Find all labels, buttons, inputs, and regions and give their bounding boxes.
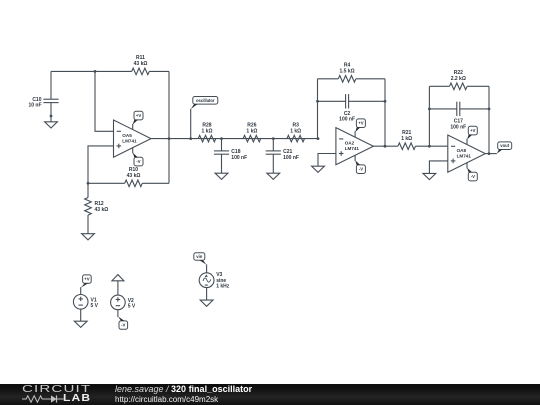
svg-text:1 kΩ: 1 kΩ xyxy=(401,136,412,142)
svg-text:oscillator: oscillator xyxy=(196,98,215,103)
svg-text:-V: -V xyxy=(359,167,363,172)
svg-text:-V: -V xyxy=(121,323,125,328)
svg-text:+V: +V xyxy=(84,277,89,282)
svg-text:100 nF: 100 nF xyxy=(283,155,299,161)
svg-text:2.2 kΩ: 2.2 kΩ xyxy=(451,76,466,82)
svg-text:1.5 kΩ: 1.5 kΩ xyxy=(340,68,355,74)
svg-text:+V: +V xyxy=(136,113,141,118)
svg-text:1 kHz: 1 kHz xyxy=(216,284,230,290)
svg-text:43 kΩ: 43 kΩ xyxy=(127,173,141,179)
svg-text:43 kΩ: 43 kΩ xyxy=(134,61,148,67)
svg-text:+V: +V xyxy=(358,121,363,126)
svg-text:1 kΩ: 1 kΩ xyxy=(202,128,213,134)
svg-text:vin: vin xyxy=(196,254,202,259)
svg-text:100 nF: 100 nF xyxy=(339,117,355,123)
svg-text:1 kΩ: 1 kΩ xyxy=(246,128,257,134)
svg-text:5 V: 5 V xyxy=(91,303,99,309)
svg-text:LM741: LM741 xyxy=(122,139,137,144)
svg-text:LM741: LM741 xyxy=(457,154,472,159)
svg-text:OA8: OA8 xyxy=(457,148,467,153)
svg-text:+V: +V xyxy=(470,128,475,133)
svg-text:LM741: LM741 xyxy=(345,146,360,151)
svg-text:OA2: OA2 xyxy=(345,140,355,145)
svg-text:-V: -V xyxy=(136,159,140,164)
svg-text:100 nF: 100 nF xyxy=(450,124,466,130)
svg-text:vout: vout xyxy=(500,143,509,148)
svg-text:OA5: OA5 xyxy=(122,133,132,138)
svg-text:-V: -V xyxy=(471,174,475,179)
svg-text:1 kΩ: 1 kΩ xyxy=(290,128,301,134)
svg-text:43 kΩ: 43 kΩ xyxy=(95,207,109,213)
svg-text:10 nF: 10 nF xyxy=(28,102,41,108)
svg-text:100 nF: 100 nF xyxy=(231,155,247,161)
svg-text:5 V: 5 V xyxy=(128,303,136,309)
